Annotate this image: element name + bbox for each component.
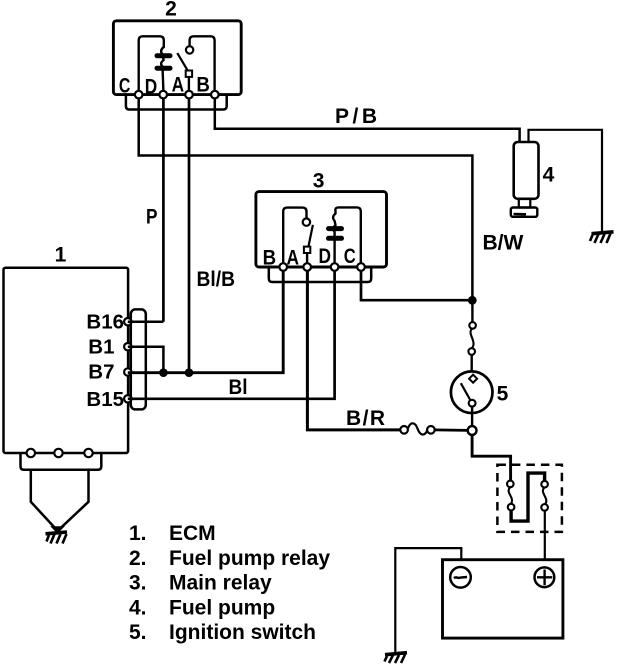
svg-text:C: C	[119, 75, 131, 98]
ignition switch bottom terminal circle	[469, 400, 476, 407]
relay K3 connector bracket	[269, 267, 371, 282]
fuse F1 left circle	[400, 426, 408, 434]
svg-text:2: 2	[165, 0, 177, 21]
ECM right connector bracket	[131, 309, 146, 409]
svg-text:1.: 1.	[129, 522, 147, 545]
wire B/W junction down to connector	[471, 300, 473, 322]
svg-text:B7: B7	[88, 361, 114, 384]
relay K2 pin A circle	[185, 91, 193, 99]
svg-text:B/R: B/R	[346, 407, 385, 430]
connector block dashed box	[497, 465, 562, 532]
svg-text:C: C	[344, 245, 356, 268]
fuse F1 wave	[408, 423, 427, 434]
svg-text:Fuel pump relay: Fuel pump relay	[169, 547, 330, 570]
wire relay K2 pin C to B/W vertical down to junction	[139, 98, 473, 298]
ground symbol battery	[385, 653, 408, 663]
ECM pin B1 circle	[124, 343, 131, 350]
relay K3 pin C circle	[357, 263, 365, 271]
svg-text:5.: 5.	[129, 621, 147, 644]
ECM pin B7 circle	[124, 368, 131, 375]
svg-text:P/B: P/B	[335, 105, 377, 128]
wire junction down right into connector box	[472, 435, 511, 481]
battery plus sign	[537, 570, 552, 586]
connector terminal circle lower	[468, 348, 475, 355]
ECM bottom pin 1 circle	[27, 449, 35, 457]
wire Bl/B relay K2 pin A down to B7 row junction	[188, 98, 191, 372]
ignition switch top terminal diamond	[469, 375, 477, 383]
relay K2 switch arm frame pin B to fixed contact	[190, 36, 215, 91]
ECM bottom pin 2 circle	[54, 449, 62, 457]
fuel pump neck	[519, 199, 531, 208]
svg-text:ECM: ECM	[169, 522, 216, 545]
wire ECM B7 row to relay K3 pin B	[128, 271, 283, 373]
wire fuel pump right terminal to ground	[529, 130, 603, 232]
ECM bottom pin 3 circle	[84, 449, 92, 457]
svg-text:A: A	[286, 247, 299, 270]
battery minus terminal	[450, 567, 471, 588]
wire connector block to battery plus	[544, 511, 546, 560]
junction dot B/W node	[468, 296, 477, 305]
relay K2 coil outline	[139, 36, 164, 91]
connector block U link wire	[511, 473, 544, 521]
connector squiggle	[471, 329, 474, 349]
svg-text:Bl/B: Bl/B	[197, 268, 236, 291]
relay K2 pin B circle	[211, 91, 219, 99]
wire ECM B16 row	[128, 320, 164, 323]
battery minus sign	[454, 577, 467, 578]
svg-text:3.: 3.	[129, 572, 147, 595]
relay K3 pin A circle	[303, 263, 311, 271]
battery plus terminal	[535, 567, 555, 587]
relay K2 pin D circle	[159, 91, 167, 99]
relay K3 fixed contact circle	[303, 218, 310, 225]
ECM ground funnel left wire	[31, 470, 57, 530]
ECM ground funnel right wire	[59, 470, 89, 530]
ground symbol fuel pump	[590, 232, 614, 243]
relay K3 coil outline	[333, 207, 361, 263]
svg-text:B/W: B/W	[483, 231, 524, 254]
svg-text:1: 1	[55, 243, 67, 266]
fuel pump relay K2 box	[113, 21, 241, 95]
relay K2 coil turn 2	[157, 66, 170, 71]
wire connector to ignition switch	[471, 355, 473, 372]
ECM bottom connector bracket	[21, 453, 102, 470]
relay K3 stub square to pin A	[306, 253, 308, 263]
wire fuse to ignition junction	[435, 429, 468, 432]
relay K2 pin C circle	[135, 91, 143, 99]
svg-text:B: B	[196, 74, 210, 97]
svg-text:B1: B1	[88, 336, 114, 359]
wire ignition switch to B/R junction	[471, 407, 473, 427]
svg-text:A: A	[172, 74, 185, 97]
battery BT box	[443, 560, 563, 638]
svg-text:D: D	[319, 245, 332, 268]
relay K2 fixed contact circle	[186, 46, 193, 53]
ECM pin B15 circle	[124, 395, 131, 402]
relay K2 stub square to pin A	[188, 77, 190, 91]
svg-text:4: 4	[543, 163, 555, 186]
svg-text:Main relay: Main relay	[169, 572, 272, 595]
B/R junction open circle	[468, 426, 477, 435]
ECM pin B16 circle	[124, 318, 131, 325]
connector terminal circle upper	[469, 322, 476, 329]
main relay K3 box	[256, 192, 387, 267]
svg-text:B16: B16	[86, 311, 124, 334]
svg-text:2.: 2.	[129, 547, 147, 570]
connector block terminal 1 circle	[507, 481, 514, 488]
relay K3 pin D circle	[331, 263, 339, 271]
relay K2 coil turn 1	[157, 53, 170, 58]
relay K2 connector bracket	[126, 95, 227, 110]
ECM U1 box	[4, 268, 129, 453]
wire P/B relay K2 pin B to fuel pump inlet	[215, 98, 520, 142]
svg-text:B: B	[263, 247, 277, 270]
connector block terminal 3 circle	[541, 481, 548, 488]
ignition switch SW5 circle	[451, 371, 493, 413]
fuse F1 right circle	[427, 426, 435, 434]
svg-text:3: 3	[313, 169, 325, 192]
svg-text:D: D	[145, 76, 158, 99]
connector block squiggle left	[509, 487, 512, 504]
wire relay K3 pin A down and B/R row to fuse	[307, 271, 400, 430]
relay K3 coil turn 2	[329, 236, 342, 241]
junction dot Bl/B on B7 row	[185, 368, 194, 377]
connector block squiggle right	[543, 488, 546, 505]
svg-text:Ignition switch: Ignition switch	[169, 621, 316, 644]
svg-text:Bl: Bl	[229, 376, 248, 399]
connector block terminal 4 circle	[541, 504, 548, 511]
relay K2 blade terminal square	[186, 71, 192, 77]
ignition switch blade	[461, 383, 471, 400]
relay K3 pin B circle	[279, 263, 287, 271]
relay K2 movable blade	[177, 53, 188, 71]
relay K3 movable blade	[308, 225, 313, 248]
fuel pump M4 body	[514, 142, 539, 199]
relay K3 coil turn 1	[329, 226, 342, 231]
svg-text:P: P	[146, 205, 158, 228]
ECM ground symbol	[46, 527, 68, 544]
wire Bl ECM B15 row to relay K3 pin D	[128, 271, 335, 399]
wire battery minus to ground	[395, 548, 461, 652]
svg-text:Fuel pump: Fuel pump	[169, 596, 275, 619]
wire ECM B1 to B7 row	[128, 347, 164, 373]
relay K3 blade terminal square	[304, 247, 310, 253]
relay K3 switch frame pin B to fixed contact	[283, 208, 306, 264]
connector block terminal 2 circle	[508, 504, 515, 511]
svg-text:B15: B15	[86, 388, 124, 411]
fuel pump base ink mark	[514, 213, 527, 216]
svg-text:4.: 4.	[129, 596, 147, 619]
fuel pump base	[511, 208, 538, 217]
wire P relay K2 pin D down to ECM B16	[162, 98, 165, 321]
svg-text:5: 5	[497, 382, 509, 405]
junction dot B1/B7	[159, 368, 168, 377]
wire relay K3 pin C to B/W junction	[361, 271, 468, 300]
